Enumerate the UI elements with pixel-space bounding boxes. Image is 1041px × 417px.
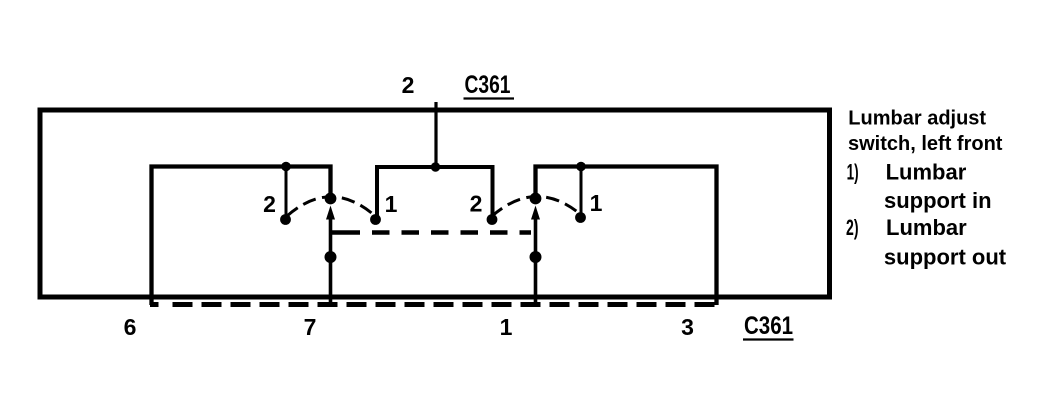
svg-text:Lumbar: Lumbar: [886, 215, 967, 240]
junction dot on pin 1 wire: [530, 251, 542, 263]
right switch fixed contact 1 dot: [575, 212, 586, 223]
right switch fixed contact 2 dot: [487, 214, 498, 225]
svg-text:support in: support in: [884, 188, 992, 213]
svg-text:Lumbar adjust: Lumbar adjust: [848, 107, 986, 129]
svg-text:7: 7: [304, 314, 317, 340]
junction dot on pin 7 wire: [325, 251, 337, 263]
wire: stub to left fixed contact 2: [285, 167, 288, 218]
wire: right pivot riser, top-right segment, pin 3 riser: [536, 167, 717, 306]
wire: pin 7 from wiper: [329, 217, 333, 305]
right switch pivot dot: [530, 193, 542, 205]
wire: pin 2 lead to connector C361 (top): [434, 102, 437, 167]
svg-text:Lumbar: Lumbar: [886, 159, 967, 184]
svg-text:1: 1: [500, 314, 513, 340]
left switch travel arc (dashed): [287, 197, 374, 216]
svg-text:1): 1): [847, 159, 859, 184]
svg-text:C361: C361: [744, 312, 793, 340]
legend: switch description: [846, 107, 1007, 269]
wire: pin 6 riser and top-left segment to left pivot: [152, 167, 331, 306]
connector C361 (bottom): [743, 312, 794, 340]
left switch wiper arrow: [326, 206, 335, 220]
wire: pin 1 from wiper: [534, 217, 538, 305]
junction dot pin 2 feed: [431, 162, 440, 171]
right switch wiper arrow: [531, 206, 540, 220]
svg-text:2: 2: [470, 191, 483, 217]
svg-text:support out: support out: [884, 244, 1007, 269]
mechanical link between wipers (dashed): [331, 230, 531, 234]
junction dot on top-right segment: [576, 162, 586, 172]
svg-text:2: 2: [263, 191, 276, 217]
connector C361 boundary (dashed): [150, 302, 719, 307]
svg-text:1: 1: [385, 191, 398, 217]
switch body outline (outer box): [40, 110, 830, 297]
svg-text:3: 3: [681, 314, 694, 340]
left switch fixed contact 2 dot: [280, 214, 291, 225]
svg-text:6: 6: [124, 314, 137, 340]
svg-text:2: 2: [402, 72, 415, 98]
svg-text:1: 1: [590, 190, 603, 216]
left switch fixed contact 1 dot: [370, 214, 381, 225]
svg-text:C361: C361: [465, 71, 511, 99]
junction dot on top-left segment: [281, 162, 291, 172]
wire: stub to right fixed contact 1: [580, 167, 583, 216]
right switch travel arc (dashed): [492, 196, 580, 216]
left switch pivot dot: [325, 193, 337, 205]
connector C361 (top): [464, 71, 515, 99]
svg-text:2): 2): [846, 215, 859, 240]
wire: middle feed segment from pin 2: [377, 167, 493, 218]
svg-text:switch, left front: switch, left front: [848, 133, 1003, 155]
